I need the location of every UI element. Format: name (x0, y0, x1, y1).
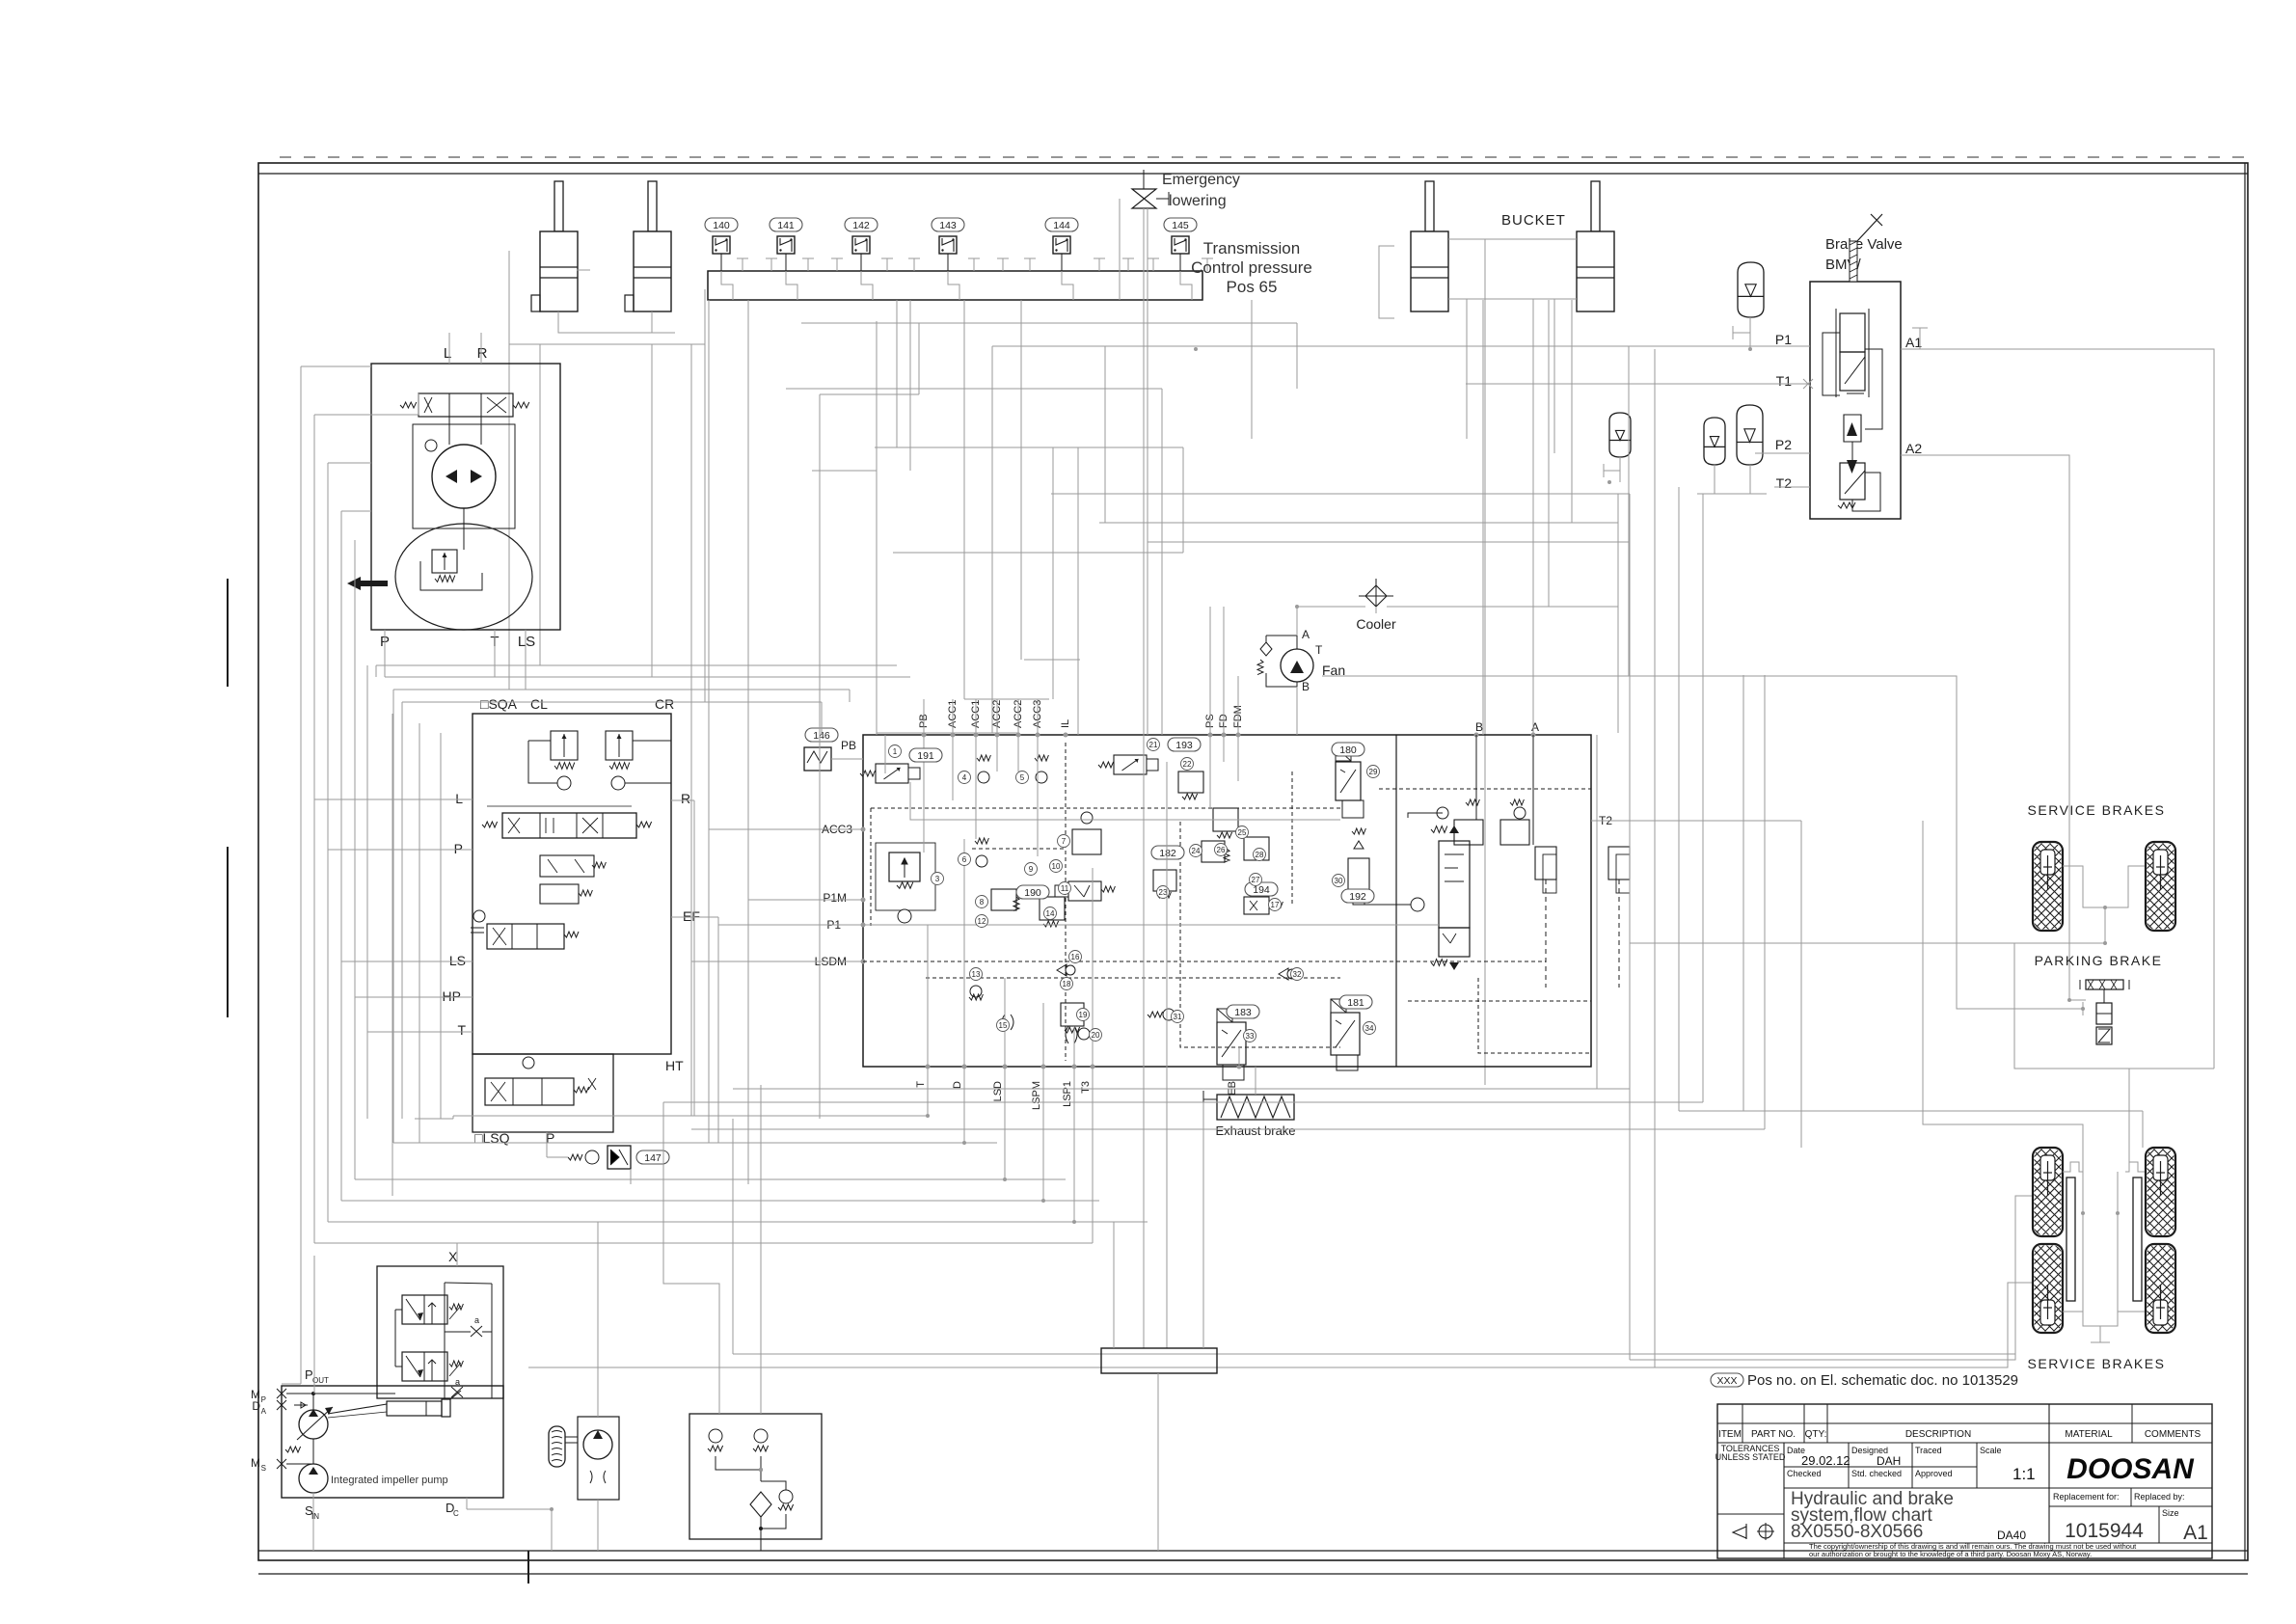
wire internal 1 (910, 782, 1340, 820)
DSQA bottom valve box (473, 1054, 613, 1132)
wire acc4 stem (1749, 465, 1751, 494)
cylinder bucket right (1591, 181, 1600, 231)
wire steering LS (525, 630, 527, 690)
wire R row DSQA (671, 799, 694, 801)
DSQA pressure reducer right (606, 731, 633, 760)
brake valve internal link left (1823, 333, 1840, 395)
svg-text:EB: EB (1227, 1081, 1238, 1096)
manifold bar (708, 271, 1202, 300)
wire drop 1210 (1166, 762, 1168, 1348)
label 180 (1332, 743, 1364, 756)
svg-text:8: 8 (980, 898, 985, 907)
wire row 359 P1 (992, 345, 1810, 347)
filter bypass check (779, 1490, 793, 1503)
svg-text:CR: CR (655, 696, 674, 712)
relief valve 3 (889, 853, 920, 881)
svg-text:CL: CL (530, 696, 548, 712)
wire bus E bottom (355, 1178, 1066, 1180)
svg-text:Emergency: Emergency (1162, 172, 1240, 188)
wheel upper-left (1937, 842, 2156, 931)
wire bucket drop 4 (1553, 299, 1555, 453)
wire lower brakes bottom link (2083, 1312, 2118, 1326)
wire steering T (494, 630, 496, 677)
wire emergency left drop (1119, 199, 1121, 300)
wire manifold 143 (948, 271, 959, 300)
wire acc2 stem (1619, 457, 1621, 482)
wire P1M stub (835, 899, 863, 901)
wire lift cyl bottoms (558, 311, 675, 333)
svg-text:11: 11 (1061, 884, 1069, 893)
svg-text:21: 21 (1149, 741, 1158, 749)
steering feedback loop (413, 424, 515, 528)
svg-text:R: R (681, 791, 690, 806)
filter box (689, 1414, 822, 1539)
DSQA bottom spool (485, 1078, 574, 1105)
wire sol 144 stem (1061, 254, 1063, 271)
svg-text:LSD: LSD (992, 1081, 1004, 1101)
wire emergency drop (1143, 208, 1145, 271)
brake valve internal link bottom (1852, 473, 1880, 511)
wire P1 row ext (718, 924, 831, 926)
wire upper wheels link (2063, 866, 2145, 907)
border frame bottom third line (258, 1573, 2248, 1575)
X internal v510 (491, 1284, 493, 1398)
DSQA bottom check (523, 1057, 534, 1069)
valve 21 (193) (1114, 755, 1147, 774)
svg-text:193: 193 (1175, 740, 1193, 751)
fan motor tire (549, 1426, 565, 1467)
label 191 (909, 748, 942, 762)
svg-text:BUCKET: BUCKET (1501, 212, 1566, 229)
wire bus A top (301, 365, 371, 367)
wire steering L (448, 333, 450, 364)
wire bucket bottom link (1448, 298, 1577, 300)
svg-text:HP: HP (443, 988, 461, 1004)
wire lift cyl cross (577, 269, 590, 271)
svg-text:L: L (455, 791, 463, 806)
wire left bus A (300, 366, 302, 1384)
svg-text:A: A (1302, 628, 1310, 641)
priority spool (1439, 841, 1470, 928)
svg-text:P: P (454, 841, 463, 856)
DSQA check right (611, 776, 625, 790)
svg-text:COMMENTS: COMMENTS (2145, 1429, 2201, 1440)
wire HP row DSQA (355, 996, 473, 998)
svg-text:192: 192 (1349, 891, 1366, 903)
wire bottom row 1404 (733, 1353, 2015, 1355)
svg-text:R: R (477, 345, 488, 362)
solenoid valve 144 (1053, 236, 1070, 254)
wire Ms (286, 1463, 313, 1465)
wire B drop (1475, 735, 1477, 820)
valve 22 (1178, 771, 1203, 793)
wire cooler out (1387, 606, 1618, 608)
wire feed upper brakes (1630, 942, 2105, 944)
projection symbol circle (1759, 1525, 1772, 1538)
svg-text:17: 17 (1271, 901, 1280, 909)
emergency lowering valve (1132, 189, 1156, 208)
svg-text:B: B (1302, 680, 1310, 693)
solenoid valve 142 (852, 236, 870, 254)
border frame inner top line (258, 173, 2248, 175)
wire sol 143 stem (947, 254, 949, 271)
wire 147 out (630, 1169, 632, 1184)
wire P1M row (748, 899, 835, 901)
svg-text:12: 12 (978, 917, 986, 926)
svg-text:SERVICE BRAKES: SERVICE BRAKES (2028, 1356, 2166, 1371)
svg-text:16: 16 (1071, 953, 1080, 961)
DSQA main spool (502, 813, 636, 838)
wire fan top (1266, 636, 1297, 649)
svg-text:Control pressure: Control pressure (1191, 258, 1312, 277)
sub valve A (1514, 807, 1526, 819)
svg-text:Integrated impeller pump: Integrated impeller pump (331, 1475, 448, 1486)
brake valve internal link right (1865, 349, 1882, 429)
steering arrow (347, 577, 388, 590)
manifold stub 920 (886, 258, 888, 271)
svg-text:140: 140 (713, 220, 730, 231)
orifice a2 (451, 1387, 463, 1397)
wire L row DSQA (314, 798, 473, 800)
wire fan pump up (597, 1222, 599, 1417)
wire row 409 (820, 393, 919, 395)
svg-text:1015944: 1015944 (2065, 1520, 2144, 1542)
svg-text:□SQA: □SQA (480, 696, 518, 712)
filter check 2 (754, 1429, 768, 1443)
svg-text:T: T (457, 1022, 466, 1038)
svg-text:Brake Valve: Brake Valve (1825, 236, 1903, 253)
svg-text:8X0550-8X0566: 8X0550-8X0566 (1791, 1522, 1923, 1542)
wire bucket top link (1448, 238, 1577, 240)
valve 19 (1061, 1003, 1084, 1026)
svg-text:PB: PB (841, 739, 856, 752)
svg-text:our authorization or brought t: our authorization or brought to the know… (1809, 1550, 2092, 1558)
wheel upper-right (2050, 842, 2269, 931)
valve 33 (183) (1217, 1022, 1246, 1065)
wire LSDM row ext (691, 961, 835, 962)
wire steering R (480, 333, 482, 364)
check 5 (1036, 771, 1047, 783)
wire v1059 (1020, 300, 1022, 660)
manifold stub 838 (807, 258, 809, 271)
label 142 (845, 218, 878, 231)
svg-text:7: 7 (1062, 837, 1067, 846)
wire stub ACC1b (975, 699, 977, 735)
svg-text:144: 144 (1053, 220, 1070, 231)
svg-text:a: a (455, 1377, 460, 1387)
wire Pout up (313, 1256, 315, 1394)
wire terminal feed 1248 (1202, 1102, 1204, 1348)
wire stub ACC1a (952, 699, 954, 735)
svg-text:142: 142 (852, 220, 870, 231)
wire bus D top (341, 510, 371, 512)
wire left bus D (340, 511, 342, 1201)
wire drop 417 (401, 702, 403, 1119)
svg-text:Approved: Approved (1915, 1469, 1953, 1478)
label 145 (1164, 218, 1197, 231)
svg-text:6: 6 (962, 855, 967, 864)
parking brake cylinder (2103, 989, 2105, 1003)
valve 29 (180) (1336, 762, 1361, 800)
wire lift drop 1 (539, 344, 541, 665)
label 146 (805, 728, 838, 742)
wire v1000 (963, 300, 965, 699)
label 147 (636, 1150, 669, 1164)
DSQA block box (473, 714, 671, 1054)
wire fan pump down (597, 1500, 599, 1551)
svg-text:24: 24 (1192, 847, 1201, 855)
svg-text:4: 4 (962, 773, 967, 782)
wire ACC3 row ext (709, 828, 822, 830)
wire right drop 1690 (1629, 494, 1631, 1360)
terminal box bottom (1101, 1348, 1217, 1373)
label 181 (1339, 995, 1372, 1009)
wire bucket drop 1 (1466, 299, 1468, 439)
brake valve lower spring (1838, 502, 1855, 508)
lift cylinder port block right (625, 295, 634, 311)
brake valve upper check triangle (1844, 415, 1861, 442)
valve 24 (1202, 841, 1225, 862)
pilot line PB dashed (871, 807, 1340, 809)
svg-text:143: 143 (939, 220, 957, 231)
brake disc right (2133, 1177, 2142, 1301)
wire upper wheels feed (2104, 907, 2106, 943)
cylinder lift left (554, 181, 563, 231)
wire lower brakes feed R (2014, 943, 2214, 1069)
svg-text:34: 34 (1365, 1024, 1374, 1033)
wire acc drop right (1678, 487, 1680, 1111)
manifold stub 1010 (973, 258, 975, 271)
wire A1 tee (1919, 328, 1921, 349)
brake valve stem (1850, 241, 1857, 282)
svg-text:DAH: DAH (1877, 1454, 1901, 1468)
wire drop T3 (1092, 1067, 1094, 1243)
wire stub A (1532, 607, 1534, 735)
wire row 728 (402, 701, 822, 703)
wire steering P (384, 630, 386, 665)
valve 29 foot (1342, 800, 1364, 818)
svg-text:DESCRIPTION: DESCRIPTION (1905, 1429, 1971, 1440)
wire v1029 (991, 346, 993, 733)
steering unit box (371, 364, 560, 630)
svg-text:28: 28 (1256, 851, 1264, 859)
wire filter feed 2 (760, 1085, 762, 1414)
svg-text:B: B (1475, 720, 1483, 734)
pilot valve upper (402, 1295, 447, 1324)
main valve divider (1395, 735, 1397, 1067)
wire v435 (419, 723, 420, 1143)
wire fan to cooler (1297, 607, 1365, 636)
wire row 573 (893, 552, 1183, 554)
cylinder lift right (648, 181, 657, 231)
valve 1 (191) (876, 764, 908, 783)
valve 28 (1244, 837, 1269, 860)
wire v1190 (1147, 208, 1148, 735)
wire stub ACC3 (1037, 699, 1039, 735)
solenoid valve 140 (713, 236, 730, 254)
wire manifold 144 (1062, 271, 1073, 300)
svg-text:26: 26 (1217, 846, 1226, 854)
svg-text:33: 33 (1246, 1032, 1255, 1041)
wire left bus B (313, 415, 315, 1243)
svg-text:191: 191 (917, 750, 934, 762)
wire T1 row (1466, 383, 1810, 385)
port x mark 1518 (277, 1459, 286, 1469)
pilot line mid dashed (926, 977, 1340, 979)
wire v1656 (1596, 735, 1598, 1089)
wire P2 stub (1755, 452, 1810, 454)
svg-text:29.02.12: 29.02.12 (1801, 1453, 1850, 1468)
manifold stub 1252 (1206, 258, 1208, 271)
wire row 725 (964, 698, 1049, 700)
pilot valve lower (402, 1352, 447, 1381)
wire row 701 fan T (1322, 675, 1629, 677)
svg-text:S: S (261, 1464, 266, 1473)
wire row 702 (385, 676, 910, 678)
wire v407 (392, 714, 393, 1196)
label 141 (770, 218, 802, 231)
svg-text:T: T (1315, 643, 1323, 657)
accumulator 2 (1609, 413, 1631, 457)
svg-text:XXX: XXX (1716, 1375, 1737, 1387)
valve 8 (991, 889, 1016, 910)
wire bus C bottom (328, 1221, 1148, 1223)
wire v1766 (1702, 494, 1704, 1102)
wire lift drop 2 (651, 344, 653, 677)
wire right drop 1678 (1617, 494, 1619, 733)
main pump circle (299, 1410, 328, 1439)
wire Dc to drain (467, 1509, 552, 1551)
wire lift cylinder loop (509, 251, 705, 344)
pump block box (282, 1386, 503, 1498)
svg-text:LSP1: LSP1 (1062, 1081, 1073, 1107)
wire filter feed 1 (663, 1102, 719, 1414)
pilot dashed 5 (1408, 1000, 1591, 1002)
pump sub box X (377, 1266, 503, 1398)
label 193 (1168, 738, 1201, 751)
wire lower brakes drop R (2128, 1069, 2130, 1162)
wire row 1129 (733, 1088, 1630, 1090)
svg-text:180: 180 (1339, 744, 1357, 756)
orifice a1 (471, 1326, 482, 1337)
wire X stem (456, 1243, 458, 1266)
wire v1868 (1800, 821, 1802, 1148)
brake valve lower check triangle (1847, 460, 1857, 474)
wire row 1171 (691, 1128, 1765, 1130)
svg-text:14: 14 (1046, 909, 1055, 918)
svg-text:31: 31 (1174, 1013, 1182, 1021)
wire v1830 (1764, 675, 1766, 1129)
wire fan down (1296, 687, 1298, 735)
wire T2 row (1591, 820, 1801, 822)
wire bucket left loop (1379, 246, 1394, 318)
wire Dc stem (466, 1498, 468, 1509)
svg-text:D: D (252, 1399, 260, 1413)
DSQA internal right link (625, 741, 671, 783)
svg-text:A: A (1531, 720, 1539, 734)
wire v1146 (1104, 346, 1106, 523)
steering control valve (419, 393, 513, 417)
valve 25 (1213, 808, 1238, 831)
wire stub ACC2b (1017, 699, 1019, 735)
svg-text:190: 190 (1024, 887, 1041, 899)
wheel lower-right-top (2050, 1148, 2269, 1236)
wire bottom row 1157 (453, 1115, 928, 1117)
solenoid valve 143 (939, 236, 957, 254)
wire row 1143 (663, 1101, 1703, 1103)
label 192 (1341, 889, 1374, 903)
solenoid valve 145 (1172, 236, 1189, 254)
svg-text:15: 15 (999, 1021, 1008, 1030)
main control valve box (863, 735, 1591, 1067)
svg-text:HT: HT (665, 1058, 684, 1073)
svg-text:25: 25 (1238, 828, 1247, 837)
label 194 (1245, 882, 1278, 896)
wire acc3 stem (1714, 465, 1715, 494)
wire row 760 (877, 732, 1019, 734)
wire P1 internal (863, 924, 1439, 926)
wire lower wheels squiggle L (2063, 1162, 2083, 1172)
svg-text:182: 182 (1159, 848, 1176, 859)
pilot line LSDM dashed (863, 961, 1546, 962)
wire drop 1186 long (1143, 208, 1145, 1348)
svg-text:Exhaust brake: Exhaust brake (1215, 1123, 1295, 1138)
valve 23 (1153, 870, 1176, 891)
svg-text:MATERIAL: MATERIAL (2065, 1429, 2113, 1440)
svg-text:1: 1 (893, 747, 898, 756)
label 190 (1016, 885, 1049, 899)
wire lift cyl right drop (651, 311, 653, 333)
wire drop 408 (392, 690, 394, 1143)
border frame right double line (2244, 163, 2246, 1560)
impeller pump circle (299, 1464, 328, 1493)
wire lift drop 3 (508, 344, 510, 690)
wire v944 (909, 300, 911, 471)
wire row 715 (393, 689, 850, 690)
svg-text:22: 22 (1183, 760, 1192, 769)
svg-text:Replacement for:: Replacement for: (2053, 1492, 2120, 1502)
wire bottom row 1418 (528, 1367, 1655, 1368)
svg-text:M: M (251, 1456, 260, 1470)
svg-text:13: 13 (972, 970, 981, 979)
svg-text:Pos 65: Pos 65 (1227, 278, 1278, 296)
wire row 464 (875, 447, 1183, 448)
svg-text:a: a (474, 1315, 479, 1325)
label 183 (1227, 1005, 1259, 1018)
wire lower wheels squiggle R (2125, 1162, 2145, 1172)
wire T2 stub (1774, 486, 1810, 488)
wire v1345 (1296, 323, 1298, 389)
svg-text:Traced: Traced (1915, 1446, 1942, 1455)
pilot dashed 4 (1379, 788, 1591, 790)
svg-text:SERVICE BRAKES: SERVICE BRAKES (2028, 802, 2166, 818)
wire v1227 (1182, 447, 1184, 553)
border frame outer (258, 163, 2248, 1560)
svg-text:Pos no. on El. schematic doc.: Pos no. on El. schematic doc. no 1013529 (1747, 1372, 2018, 1389)
fold mark left upper (227, 579, 229, 687)
accumulator 4 (1737, 405, 1763, 465)
svg-text:T2: T2 (1776, 475, 1793, 491)
parking brake pad (2086, 980, 2123, 989)
check 4 (978, 771, 989, 783)
accumulator 1 (1738, 262, 1764, 317)
solenoid valve 141 (777, 236, 795, 254)
valve 34 (181) (1331, 1013, 1360, 1055)
svg-text:lowering: lowering (1169, 193, 1227, 209)
svg-text:PARKING BRAKE: PARKING BRAKE (2035, 953, 2163, 968)
wire A2 long (1901, 455, 2086, 1000)
DSQA pilot valve (540, 855, 594, 877)
